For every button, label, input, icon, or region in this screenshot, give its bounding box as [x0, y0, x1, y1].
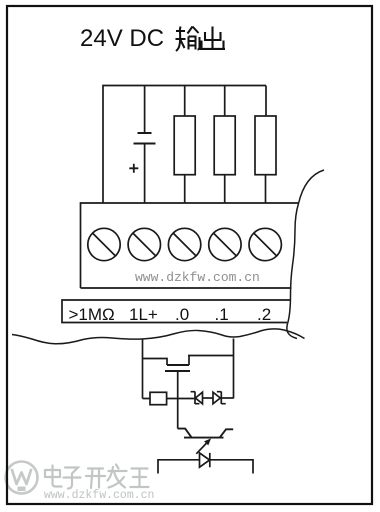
title 出 — [200, 27, 226, 49]
wire: top bus — [103, 86, 266, 204]
wire: R3 bottom lead — [265, 175, 267, 203]
svg-text:1L+: 1L+ — [129, 305, 158, 324]
svg-text:24V DC: 24V DC — [80, 25, 164, 52]
zener diode Z2 — [213, 392, 226, 405]
watermark 电子开发王 bottom-left — [45, 465, 149, 489]
transistor Q1 gate plate — [165, 370, 190, 372]
svg-text:.0: .0 — [175, 305, 189, 324]
capacitor C1 — [138, 132, 152, 134]
torn edge vertical wavy line — [287, 204, 299, 339]
torn edge horizontal wavy line — [12, 329, 305, 344]
svg-text:www.dzkfw.com.cn: www.dzkfw.com.cn — [44, 489, 154, 502]
wire: R2 top lead — [224, 86, 226, 117]
王 — [131, 469, 149, 488]
terminal screw 3 — [168, 228, 200, 260]
wire: capacitor bottom lead — [144, 144, 146, 204]
label strip box — [62, 300, 290, 323]
LED D1 — [200, 453, 210, 467]
title 输 — [176, 27, 200, 52]
terminal screw 5 — [249, 228, 281, 260]
svg-text:.2: .2 — [257, 305, 271, 324]
terminal screw 1 — [88, 228, 120, 260]
wire: gate lead down — [177, 371, 179, 429]
发 — [108, 465, 127, 488]
开 — [86, 469, 105, 489]
wire: R3 top lead (bus corner) — [265, 86, 267, 117]
torn edge arc top right — [299, 170, 325, 204]
svg-text:>1MΩ: >1MΩ — [69, 305, 115, 324]
optocoupler light arrow — [196, 443, 206, 453]
wire: capacitor top lead — [144, 86, 146, 133]
wire: zener to right drop — [221, 397, 233, 399]
transistor Q1 channel bar — [167, 364, 189, 366]
terminal screw 4 — [209, 228, 241, 260]
resistor R1 — [174, 116, 195, 175]
transistor Q1 drain lead — [188, 356, 234, 366]
capacitor plus sign — [129, 164, 138, 173]
svg-text:.1: .1 — [215, 305, 229, 324]
transistor Q1 source lead — [143, 359, 168, 366]
子 — [64, 468, 81, 489]
terminal screw 2 — [128, 228, 160, 260]
电 — [45, 466, 62, 487]
wire: LED rail with end brackets — [158, 460, 253, 474]
svg-text:www.dzkfw.com.cn: www.dzkfw.com.cn — [135, 270, 260, 285]
zener diode Z1 — [191, 392, 203, 405]
wire: left drop of output stage — [142, 339, 144, 399]
terminal block outline — [81, 203, 299, 288]
wire: right drop of output stage — [233, 339, 235, 399]
resistor R2 — [214, 116, 235, 175]
resistor R3 — [255, 116, 276, 175]
wire: R2 bottom lead — [224, 175, 226, 203]
wire between zeners — [203, 397, 214, 399]
wire: bottom rail of output stage — [143, 398, 196, 400]
resistor R4 gate-source — [150, 392, 167, 404]
wire: R1 top lead — [184, 86, 186, 117]
watermark logo circle W bottom-left — [6, 462, 38, 494]
wire: R1 bottom lead — [184, 175, 186, 203]
optocoupler phototransistor — [178, 429, 234, 438]
title 输 right part — [188, 27, 200, 50]
